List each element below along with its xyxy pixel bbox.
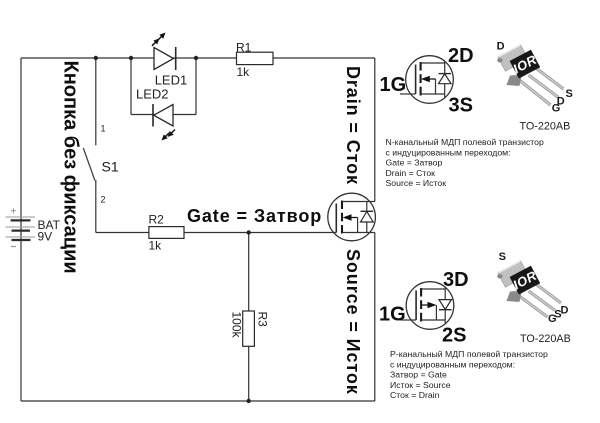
leg S — [537, 69, 564, 90]
note N-channel description — [386, 137, 544, 188]
wire bottom rail — [21, 400, 375, 402]
svg-text:TO-220AB: TO-220AB — [520, 121, 571, 133]
body diode — [444, 289, 446, 300]
LED1 triangle — [154, 48, 174, 70]
wire switch lower — [95, 180, 97, 233]
substrate arrow — [429, 78, 436, 80]
metal tab — [498, 261, 528, 287]
svg-text:3S: 3S — [449, 95, 473, 117]
svg-text:1G: 1G — [379, 304, 406, 326]
LED2 emission arrows — [165, 133, 169, 137]
svg-text:Source = Исток: Source = Исток — [343, 249, 363, 395]
svg-text:LED2: LED2 — [136, 86, 169, 101]
node junction bottom-R3 — [247, 399, 251, 403]
wire switch upper — [95, 58, 97, 145]
wire R3 upper — [248, 233, 250, 312]
source internal — [342, 232, 375, 234]
svg-text:S1: S1 — [102, 159, 119, 175]
gate line — [335, 204, 337, 233]
svg-text:3D: 3D — [443, 269, 469, 291]
body front face — [507, 75, 523, 86]
svg-text:1k: 1k — [149, 239, 163, 253]
svg-text:1G: 1G — [380, 74, 407, 96]
LED2 triangle — [154, 105, 173, 127]
wire LED branch left — [130, 58, 132, 115]
svg-text:S: S — [499, 251, 506, 263]
svg-text:с индуцированным переходом:: с индуцированным переходом: — [386, 147, 511, 157]
svg-text:Drain = Сток: Drain = Сток — [386, 168, 436, 178]
body diode — [444, 63, 446, 74]
battery plate long 2 — [6, 226, 36, 228]
black body — [510, 266, 541, 295]
substrate arrow — [421, 304, 428, 306]
LED2 cathode bar — [152, 104, 154, 127]
switch arm — [83, 148, 95, 181]
gate lead — [400, 93, 416, 95]
drain internal — [421, 287, 445, 289]
svg-text:Исток = Source: Исток = Source — [390, 380, 451, 390]
resistor R2 — [149, 213, 185, 253]
svg-text:D: D — [497, 41, 505, 53]
body front face — [507, 291, 523, 302]
source internal — [421, 94, 445, 98]
svg-text:Source = Исток: Source = Исток — [386, 178, 447, 188]
LED1 cathode bar — [175, 47, 177, 70]
drain internal — [342, 201, 375, 203]
battery plate short 1 — [11, 219, 31, 221]
wire R3 lower — [248, 346, 250, 401]
transistor P-channel MOSFET symbol — [379, 269, 469, 347]
gate line — [415, 65, 417, 95]
svg-text:LED1: LED1 — [155, 72, 188, 87]
TO-220 package bottom — [497, 251, 571, 345]
wire top rail — [21, 57, 375, 59]
battery BAT — [6, 207, 61, 247]
R1 body — [237, 52, 274, 64]
svg-text:N-канальный МДП полевой транзи: N-канальный МДП полевой транзистор — [386, 137, 544, 147]
svg-text:Drain = Сток: Drain = Сток — [343, 66, 363, 185]
svg-text:1: 1 — [101, 124, 106, 134]
leg D — [537, 285, 562, 304]
transistor N-channel MOSFET symbol — [380, 45, 474, 117]
leg D — [529, 75, 559, 98]
wire gate horizontal — [96, 232, 336, 234]
battery plate long 1 — [6, 216, 36, 218]
body diode — [366, 202, 368, 212]
note P-channel description — [390, 349, 548, 400]
gate lead — [401, 319, 417, 321]
svg-text:Сток = Drain: Сток = Drain — [390, 390, 440, 400]
svg-text:Gate = Затвор: Gate = Затвор — [386, 158, 443, 168]
svg-text:Затвор = Gate: Затвор = Gate — [390, 370, 447, 380]
svg-text:TO-220AB: TO-220AB — [520, 333, 571, 345]
battery plate long 3 — [6, 236, 36, 238]
svg-text:G: G — [548, 313, 557, 325]
leg G — [521, 81, 551, 105]
wire drain vertical — [374, 58, 376, 202]
resistor R1 — [236, 41, 273, 80]
source internal — [421, 320, 445, 324]
transistor Q1 circuit MOSFET — [328, 193, 376, 241]
battery minus sign — [11, 246, 16, 248]
svg-text:Кнопка без фиксации: Кнопка без фиксации — [60, 61, 82, 274]
svg-text:2S: 2S — [442, 325, 466, 347]
resistor R3 — [229, 311, 269, 346]
svg-text:с индуцированным переходом:: с индуцированным переходом: — [390, 359, 515, 369]
svg-text:2: 2 — [101, 195, 106, 205]
battery plate short 2 — [12, 230, 31, 232]
gate line — [415, 291, 417, 321]
substrate arrow — [351, 217, 358, 219]
wire LED branch right — [195, 58, 197, 115]
svg-text:9V: 9V — [38, 230, 53, 244]
R2 body — [149, 227, 184, 239]
leg G — [521, 297, 548, 317]
leg S — [529, 291, 556, 311]
svg-text:G: G — [552, 103, 561, 115]
svg-text:1k: 1k — [237, 65, 251, 79]
channel dashed line — [420, 62, 422, 96]
svg-text:R2: R2 — [149, 213, 165, 227]
node junction gate-R3 — [247, 230, 251, 234]
svg-text:R1: R1 — [236, 41, 252, 55]
TO-220 package top — [497, 41, 573, 133]
channel dashed line — [341, 201, 343, 234]
wire left rail — [20, 58, 22, 401]
LED1 emission arrows — [158, 36, 162, 40]
channel dashed line — [420, 288, 422, 322]
node junction top-switch — [94, 56, 98, 60]
node junction LED left — [129, 56, 133, 60]
LED LED1 — [152, 33, 187, 88]
svg-text:D: D — [561, 305, 569, 317]
svg-text:100k: 100k — [229, 312, 243, 339]
node junction LED right — [194, 56, 198, 60]
wire source vertical — [374, 233, 376, 402]
svg-text:Р-канальный МДП полевой транзи: Р-канальный МДП полевой транзистор — [390, 349, 548, 359]
metal tab — [498, 45, 528, 71]
R3 body — [243, 311, 255, 346]
wire LED branch bottom — [131, 114, 196, 116]
switch S1 — [83, 124, 119, 205]
LED LED2 — [136, 86, 175, 140]
svg-text:R3: R3 — [255, 312, 269, 328]
svg-text:Gate = Затвор: Gate = Затвор — [187, 206, 322, 226]
drain internal — [421, 61, 445, 63]
svg-text:+: + — [11, 207, 17, 218]
battery plate short 3 — [12, 239, 31, 241]
svg-text:S: S — [566, 88, 573, 100]
svg-text:2D: 2D — [448, 45, 474, 67]
black body — [510, 50, 541, 79]
